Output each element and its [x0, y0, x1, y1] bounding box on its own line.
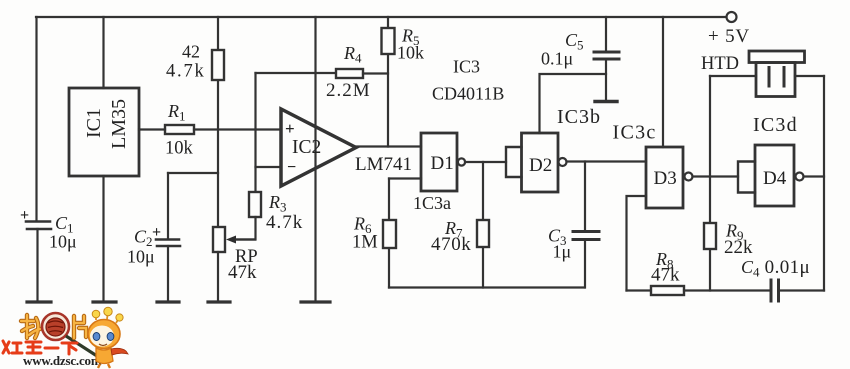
svg-text:IC1: IC1	[83, 108, 105, 138]
gate D4 box	[755, 145, 794, 206]
wire R5 vertical	[387, 17, 389, 147]
resistor R5	[382, 28, 395, 54]
svg-text:IC3d: IC3d	[753, 114, 798, 136]
svg-text:4.7k: 4.7k	[166, 62, 206, 82]
wire op-amp output to D1	[356, 145, 421, 147]
watermark mascot	[88, 307, 128, 368]
wire D3 out to D4	[693, 175, 739, 177]
wire feedback bottom right	[627, 289, 652, 291]
wire R3/R4 vertical node	[254, 73, 256, 192]
svg-text:IC3: IC3	[453, 57, 480, 77]
wire HTD right	[795, 75, 824, 77]
gate D2 box	[522, 133, 559, 192]
gate D1 box	[421, 133, 457, 191]
watermark fist	[46, 318, 65, 336]
resistor R3	[249, 192, 261, 217]
capacitor C1	[26, 222, 51, 230]
svg-text:IC3c: IC3c	[613, 122, 657, 144]
resistor 42 4.7k	[212, 50, 224, 80]
svg-text:D3: D3	[654, 168, 677, 189]
watermark text weikuyixia	[3, 341, 77, 354]
svg-text:LM741: LM741	[355, 154, 412, 175]
ground C2	[157, 300, 179, 303]
watermark text zhao	[21, 315, 40, 338]
gate D4 output bubble	[796, 173, 804, 181]
wire C4 to right rail	[779, 289, 825, 291]
wire right rail	[823, 76, 825, 291]
svg-text:10k: 10k	[165, 139, 194, 159]
svg-text:47k: 47k	[228, 262, 257, 283]
svg-text:10μ: 10μ	[127, 247, 155, 267]
op-amp IC2 triangle	[281, 109, 356, 186]
capacitor C5	[594, 52, 619, 59]
svg-text:www.dzsc.com: www.dzsc.com	[23, 353, 102, 368]
svg-text:+: +	[152, 224, 161, 241]
watermark magnifier ring	[42, 313, 69, 340]
svg-text:22k: 22k	[724, 237, 753, 258]
gate D2 output bubble	[559, 158, 567, 166]
ground C5	[595, 100, 617, 103]
wire R6 vertical	[388, 179, 390, 288]
svg-text:C4 0.01μ: C4 0.01μ	[741, 257, 810, 280]
wire HTD left	[710, 75, 756, 77]
capacitor C4	[771, 280, 779, 301]
resistor R8	[651, 286, 684, 295]
RP wiper arrow	[226, 236, 255, 244]
svg-text:1μ: 1μ	[553, 242, 572, 262]
wire D3 lower input	[627, 196, 647, 291]
wire oscillator bottom	[389, 286, 585, 288]
wire C3 bottom lead	[584, 240, 586, 288]
svg-text:D1: D1	[431, 153, 454, 174]
resistor R1	[165, 125, 194, 134]
gate D3 output bubble	[685, 173, 693, 181]
svg-text:0.1μ: 0.1μ	[541, 49, 573, 69]
resistor R4	[336, 69, 363, 78]
resistor R6	[383, 220, 396, 248]
svg-text:47k: 47k	[651, 265, 680, 286]
svg-text:D2: D2	[529, 155, 552, 176]
wire supply mid vertical	[314, 17, 316, 301]
gate D1 output bubble	[458, 158, 465, 165]
resistor R9	[704, 223, 716, 249]
potentiometer RP body	[213, 227, 225, 252]
capacitor C3 top lead	[584, 162, 586, 231]
gate D3 box	[646, 147, 683, 208]
wire R4 right lead	[363, 72, 388, 74]
buzzer HTD plates	[769, 68, 784, 87]
svg-text:R4: R4	[343, 43, 362, 66]
svg-text:42: 42	[182, 42, 200, 62]
wire IC1 bottom to ground	[102, 176, 104, 301]
wire C5 bottom	[605, 59, 607, 100]
wire R8 to C4	[684, 289, 770, 291]
svg-text:HTD: HTD	[701, 54, 739, 74]
wire C2 top lead	[167, 173, 169, 239]
wire R7 vertical	[482, 162, 484, 288]
wire D1 lower input	[389, 177, 421, 179]
ground C1	[27, 300, 51, 303]
svg-text:1C3a: 1C3a	[413, 193, 451, 213]
buzzer HTD lid	[749, 51, 805, 63]
svg-text:−: −	[287, 159, 296, 176]
ground IC1	[93, 300, 116, 303]
wire D1 out to D2 in	[465, 161, 506, 163]
op-amp minus input wire	[256, 166, 282, 168]
capacitor C5 leads	[605, 17, 607, 51]
wire top +5V bus	[36, 16, 726, 18]
+5V terminal	[727, 12, 737, 22]
svg-text:IC2: IC2	[292, 137, 321, 158]
wire R3 bottom to wiper	[236, 217, 256, 240]
svg-text:10μ: 10μ	[49, 232, 77, 252]
svg-text:10k: 10k	[397, 43, 424, 63]
svg-text:CD4011B: CD4011B	[432, 84, 504, 104]
svg-text:1M: 1M	[352, 233, 378, 253]
buzzer HTD body	[756, 63, 795, 97]
capacitor C3	[573, 232, 599, 240]
wire C2 bottom	[167, 246, 169, 301]
watermark text pian	[74, 316, 86, 338]
wire D4 output	[804, 175, 825, 177]
wire R9 vertical	[709, 76, 711, 291]
wire IC1 output	[139, 128, 165, 130]
svg-text:2.2M: 2.2M	[326, 80, 371, 101]
svg-text:LM35: LM35	[108, 99, 130, 149]
svg-text:R1: R1	[167, 101, 186, 124]
svg-text:+: +	[20, 207, 29, 224]
ground RP	[208, 300, 230, 303]
wire RP bottom	[217, 252, 219, 301]
ground mid	[301, 300, 330, 303]
svg-text:+ 5V: + 5V	[708, 26, 750, 47]
wire C1 to ground	[36, 229, 38, 301]
watermark group	[3, 307, 128, 368]
wire C2 branch	[168, 172, 218, 174]
wire D2 out to D3	[567, 160, 647, 162]
wire D2 top	[540, 74, 607, 133]
gate D2 input bracket	[506, 147, 522, 177]
wire IC1 top	[102, 17, 104, 88]
resistor R7	[477, 220, 489, 247]
wire D3 top input from bus	[662, 17, 664, 147]
IC1 LM35 box	[69, 88, 139, 176]
svg-text:+: +	[285, 119, 295, 138]
wire R1 to op-amp + input	[194, 128, 281, 130]
wire R4 left lead	[256, 72, 337, 74]
wire divider vertical (42/4.7k, RP chain)	[217, 17, 219, 227]
svg-text:D4: D4	[763, 168, 787, 189]
watermark magnifier handle	[66, 336, 97, 356]
svg-text:IC3b: IC3b	[557, 106, 601, 128]
gate D4 input bracket	[738, 162, 755, 193]
svg-text:470k: 470k	[431, 234, 471, 255]
svg-text:4.7k: 4.7k	[266, 212, 303, 233]
wire left rail down to C1	[35, 17, 37, 221]
capacitor C2	[156, 240, 180, 247]
